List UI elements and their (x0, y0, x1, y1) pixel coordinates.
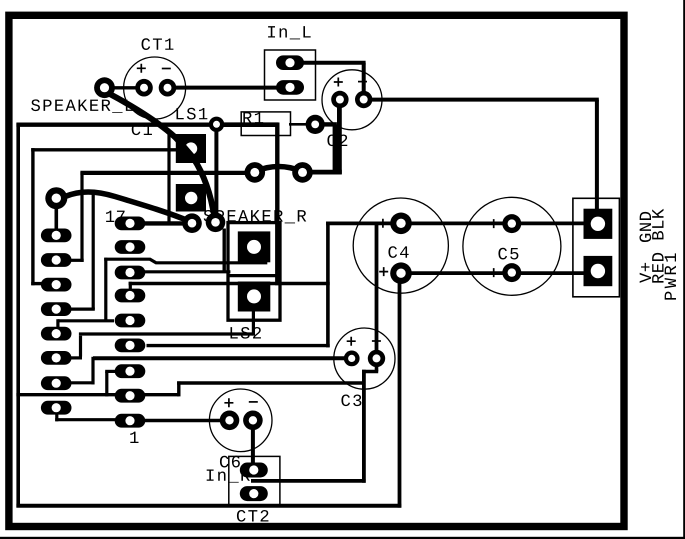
wire pad E stub (68, 308, 95, 311)
pad ring R2b (206, 213, 226, 233)
wire GND loop top to R1 pad (16, 122, 217, 126)
plus mark C4 top (378, 219, 387, 228)
wire GND loop left (16, 123, 20, 507)
pad IC left 2 (41, 253, 72, 267)
wire x328 vertical (326, 222, 330, 348)
resistor R1 outline (241, 112, 290, 136)
wire row y272 pad3 (144, 270, 230, 273)
wire stub along LS2 left (222, 229, 225, 273)
wire pad F stub up (56, 319, 59, 334)
pad IC left 5 (41, 327, 72, 341)
pad C2 minus (355, 91, 372, 108)
wire x334.6 vertical (333, 124, 338, 173)
pad LS1 square bottom (176, 184, 206, 212)
minus mark CT1 (162, 68, 171, 70)
wire pad M to C6 (144, 419, 221, 423)
wire x169 vertical (167, 130, 170, 225)
pad IC right 4 (115, 289, 146, 303)
pad IC right 3 (115, 266, 146, 280)
wire R1 right pad stub (321, 122, 337, 126)
wire pad C vertical (80, 172, 83, 262)
wire SPEAKER_L to CT1 (103, 86, 145, 89)
wire C3 right pad up to V+ row (375, 222, 379, 352)
wire x364 vertical C3 to CT2 (362, 370, 366, 483)
capacitor C4 outline (353, 198, 448, 293)
capacitor C2 outline (322, 70, 382, 130)
label LS2 (230, 327, 260, 339)
capacitor C5 outline (463, 197, 561, 295)
wire jog under C3 (362, 370, 378, 374)
wire In_L pad1 right (288, 61, 366, 65)
plus mark C5 bottom (489, 268, 498, 277)
label C2 (327, 134, 347, 146)
wire GND riser to C4 (398, 272, 402, 508)
wire net2 horizontal to C1 (31, 148, 177, 151)
capacitor C6 outline (209, 389, 272, 452)
pad LS2 square bottom (238, 282, 270, 312)
label R1 (243, 112, 263, 123)
label RED BLK rotated (652, 209, 663, 283)
wire row y384 (177, 381, 365, 384)
wire IC pad1 to SPEAKER_R ring (144, 221, 193, 225)
plus mark CT1 (137, 64, 146, 73)
connector CT2 outline (229, 456, 280, 505)
label C6 (220, 456, 240, 468)
pad C5 top (502, 214, 521, 233)
pad IC right 9 (115, 414, 146, 428)
wire pad F to pad G (58, 319, 114, 322)
wire arc2 lower curve (65, 192, 190, 222)
pad PWR1 GND (584, 256, 613, 286)
pad IC left 4 (41, 302, 72, 316)
wire row y358 to C3 left pad (93, 356, 352, 360)
wire row y345.6 pad I (147, 344, 330, 347)
label LS1 (176, 108, 207, 120)
pad C6 plus (220, 411, 240, 431)
label CT1 (142, 38, 174, 50)
wire C3 right pad bottom stub (375, 363, 379, 372)
wire arc1 overlay through LS1 pad hole (176, 138, 196, 161)
pad In_L 2 (276, 80, 304, 95)
wire LS2 bottom pad down (252, 310, 255, 336)
wire into SPEAKER_R pad2 (300, 170, 342, 175)
plus mark C4 bottom (379, 267, 388, 276)
label SPEAKER_L (31, 99, 133, 112)
wire x93 vertical (91, 357, 94, 385)
wire row y481 CT2 to C3 (251, 479, 366, 483)
wire net2 vertical (31, 148, 34, 285)
wire R1 right thin link (289, 123, 307, 126)
wire row y283.5 (129, 282, 330, 285)
label PWR1 rotated (665, 253, 676, 299)
pad SPEAKER_L ring2 (45, 187, 67, 209)
wire x80.5 vertical (79, 336, 82, 357)
wire pad L stub down (55, 413, 58, 421)
wire row y275.6 under LS2 (227, 274, 278, 277)
connector In_L outline (265, 50, 316, 100)
pad IC right 8 (115, 389, 146, 403)
pad CT2 2 (240, 486, 268, 501)
pad IC left 3 (41, 278, 72, 292)
label C5 (498, 248, 518, 260)
plus mark C5 top (489, 219, 498, 228)
wire x216.4 vertical ring to ring (214, 126, 218, 222)
pad C5 bottom (502, 263, 521, 282)
pad C3 plus (344, 351, 360, 367)
pad R1 left (209, 117, 224, 132)
screenshot right border (683, 0, 685, 539)
wire CT1 to In_L pad2 (166, 86, 278, 90)
pad SPEAKER_L ring1 (94, 77, 115, 98)
connector PWR1 outline (573, 198, 620, 296)
label pin 1 (130, 432, 138, 443)
wire C2 to PWR1 top (362, 98, 599, 102)
pad LS1 square top (176, 134, 206, 163)
label V+ GND rotated (640, 263, 651, 283)
wire pad C stub (68, 259, 84, 262)
capacitor C3 outline (334, 328, 395, 389)
wire down to C2 minus pad (362, 63, 366, 92)
wire row y261 to LS2 top pad (104, 259, 267, 263)
capacitor CT1 outline (124, 57, 186, 119)
pad IC left 1 (41, 229, 72, 243)
pad SPEAKER_R ring1 (245, 162, 266, 183)
wire arc1 SPEAKER_L curve (108, 93, 215, 219)
plus mark C2 (334, 78, 343, 87)
plus mark C3 (347, 337, 356, 346)
pad IC left 8 (41, 401, 72, 415)
pad ring R2a (182, 213, 202, 233)
speaker LS2 outline (228, 223, 280, 321)
pad R1 right (306, 115, 325, 134)
wire pad J vertical (105, 371, 108, 396)
pad IC right 7 (115, 364, 146, 378)
wire pad J stub (105, 370, 115, 373)
pad C4 bottom (390, 262, 412, 284)
wire jog x178.8 (177, 381, 180, 396)
pad In_L 1 (276, 55, 304, 70)
wire C6 right pad down to CT2 (251, 428, 255, 465)
wire R1 pad to corner through body (214, 122, 278, 127)
pad SPEAKER_R ring2 (292, 162, 313, 183)
wire bowtie arc SPEAKER_R (255, 167, 302, 172)
wire pad L to pad M (55, 418, 117, 421)
label CT2 (237, 510, 268, 522)
wire GND loop bottom (16, 504, 401, 508)
plus mark C6 (224, 398, 233, 407)
label C3 (341, 394, 361, 406)
wire long row y395 (16, 393, 178, 396)
label SPEAKER_R (204, 210, 307, 223)
minus mark C6 (249, 401, 258, 403)
wire row y173 to SPEAKER_R (80, 171, 255, 175)
screenshot bottom border (0, 537, 685, 539)
pad IC right 1 (115, 217, 146, 231)
wire pad E vertical to arc (92, 193, 95, 310)
wire x105.8 vertical (104, 258, 107, 322)
pad C2 plus (331, 91, 348, 108)
minus mark C3 (372, 340, 381, 342)
pad CT2 1 (240, 463, 268, 478)
label C4 (388, 246, 408, 258)
pad LS2 square top (238, 231, 270, 262)
pad IC left 7 (41, 376, 72, 390)
wire net2 to pad D (31, 282, 45, 285)
pad IC right 2 (115, 240, 146, 254)
wire row y334 to LS2 bottom pad (79, 332, 254, 335)
label In_L (268, 26, 311, 39)
pad IC right 6 (115, 339, 146, 353)
label In_R (207, 469, 250, 482)
wire pad K stub (69, 381, 95, 384)
label C1 (132, 123, 152, 135)
wire pad H stub (69, 356, 82, 359)
wire GND row y273.1 (400, 271, 585, 275)
pad C3 minus (368, 350, 385, 367)
pad IC left 6 (41, 351, 72, 365)
wire SPEAKER_L pad2 to IC pad B (54, 204, 58, 237)
pad CT1 minus (159, 79, 177, 97)
wire R1 net down x279.5 (275, 123, 279, 286)
wire C2 plus pad down (337, 107, 342, 174)
pad IC right 5 (115, 314, 146, 328)
wire V+ row y223.35 (326, 221, 585, 225)
pad CT1 plus (135, 79, 153, 97)
wire pad4 stub (129, 282, 132, 290)
wire V+ riser to PWR1 (595, 100, 599, 211)
pad C6 minus (243, 411, 263, 431)
pad PWR1 V+ (584, 209, 613, 239)
minus mark C2 (358, 81, 367, 83)
label pin 17 (106, 211, 125, 222)
pad C4 top (390, 213, 412, 235)
